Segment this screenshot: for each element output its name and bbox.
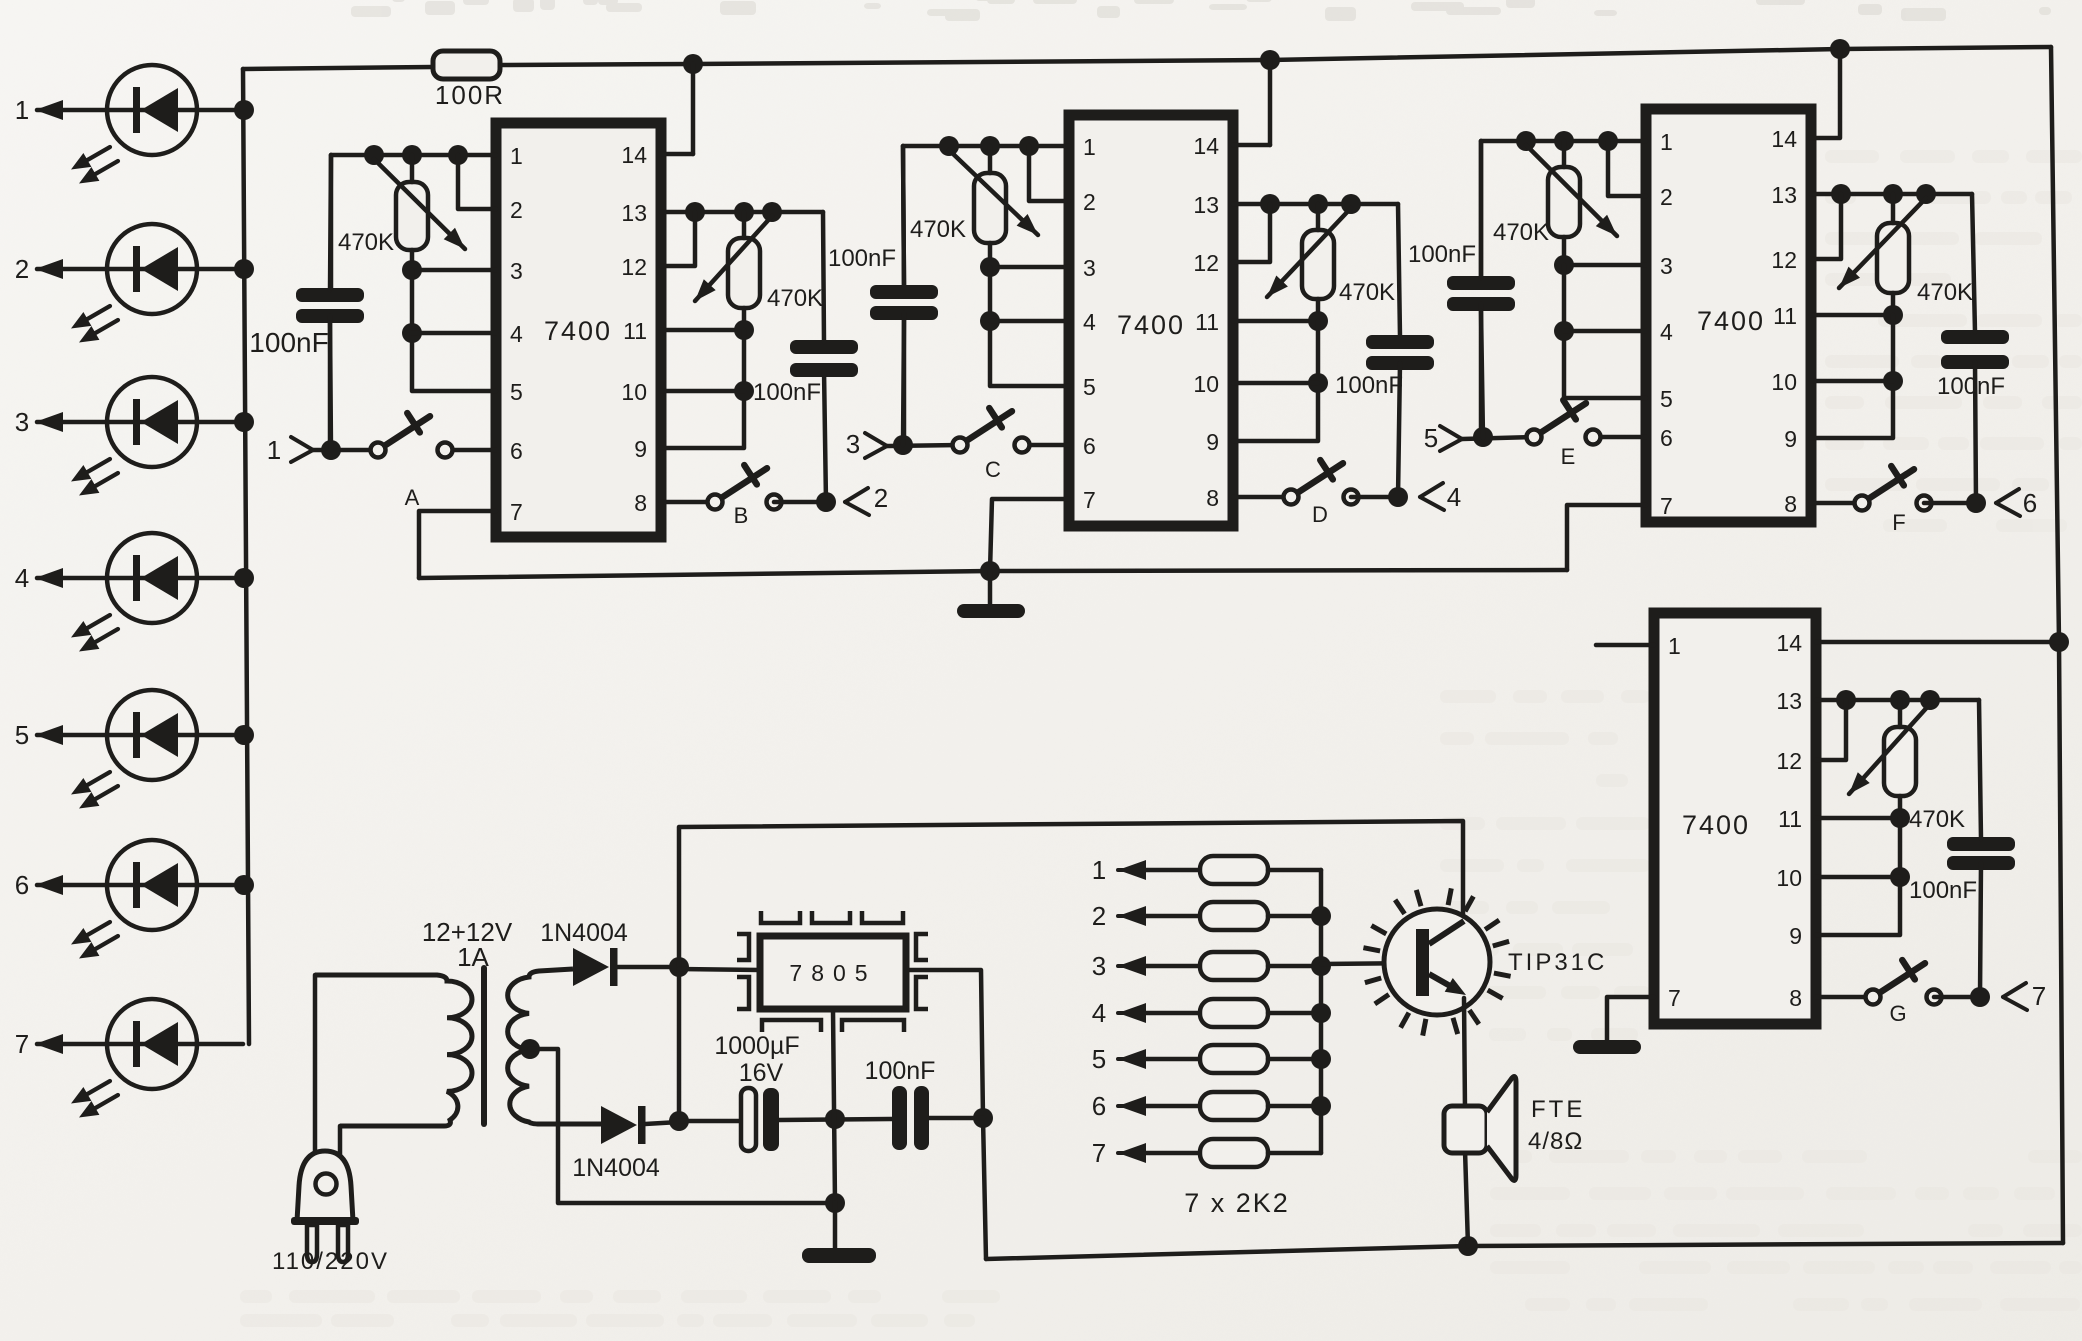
svg-text:14: 14 xyxy=(1193,133,1219,159)
wire: U4 pin11-10-9 tie xyxy=(1816,818,1900,935)
wire: U1 pin11 lead xyxy=(661,328,744,333)
junction D2 output xyxy=(669,1111,689,1131)
svg-text:11: 11 xyxy=(1195,309,1219,335)
wire: U3 cap left riser xyxy=(1479,141,1484,276)
ghost text bottom right xyxy=(1490,1150,2082,1311)
resistor 2K2 #1 xyxy=(1092,855,1321,885)
svg-text:7400: 7400 xyxy=(1682,810,1750,840)
svg-text:13: 13 xyxy=(1193,192,1219,218)
wire: U1 cap to input node xyxy=(330,323,331,450)
switch G (U4) xyxy=(1866,960,1942,1026)
wire: base drive xyxy=(1321,963,1416,964)
junction center tap xyxy=(520,1039,540,1059)
junctions on LED bus xyxy=(234,100,254,895)
svg-text:7400: 7400 xyxy=(1697,306,1765,336)
junction U1 pin10 xyxy=(734,381,754,401)
svg-text:7: 7 xyxy=(1660,493,1673,519)
junction U4 trimmer top/pin13 xyxy=(1890,690,1910,710)
wire: rectifier node riser xyxy=(677,967,682,1121)
junction U3 pin2 riser/pin1 xyxy=(1598,131,1618,151)
svg-text:100nF: 100nF xyxy=(828,245,896,272)
svg-text:6: 6 xyxy=(1660,425,1673,451)
junction 5V riser / 100nF xyxy=(973,1108,993,1128)
wire: U2 pin8 to switch xyxy=(1233,495,1291,500)
junction bottom rail / speaker line xyxy=(1458,1236,1478,1256)
junction U1 pin12 riser/pin13 xyxy=(685,202,705,222)
transformer core xyxy=(481,968,487,1124)
svg-text:7: 7 xyxy=(1092,1138,1106,1168)
svg-text:C: C xyxy=(985,457,1001,482)
svg-text:6: 6 xyxy=(1092,1091,1106,1121)
svg-text:G: G xyxy=(1889,1001,1906,1026)
junction U1 pin11 xyxy=(734,320,754,340)
junction U2 pin12 riser/pin13 xyxy=(1260,194,1280,214)
wire: U3 cap top lead xyxy=(1479,141,1484,278)
package marks around 7805 xyxy=(737,911,928,1032)
trimmer 470K at U1 output gate xyxy=(728,238,760,308)
svg-text:8: 8 xyxy=(1784,491,1797,517)
wire: U1 trimmer bottom lead xyxy=(410,250,415,270)
trimmer 470K at U4 output gate xyxy=(1884,727,1916,796)
wire: ground symbol riser U2 xyxy=(988,571,993,604)
wire: 7805 input xyxy=(679,969,760,970)
wire: U2 pin14 riser xyxy=(1268,60,1273,145)
wire: node to C1 xyxy=(679,1119,741,1124)
junction U3 pin11 xyxy=(1883,305,1903,325)
ghost text mid right xyxy=(1440,690,1650,1041)
input connector 1 xyxy=(291,437,313,450)
wire: U1 pin11-10-9 tie xyxy=(661,330,744,448)
svg-text:F: F xyxy=(1892,510,1905,535)
input connector 5 xyxy=(1440,426,1462,439)
svg-text:5: 5 xyxy=(1660,386,1673,412)
wire: bottom +5V rail xyxy=(986,1243,2063,1259)
svg-text:16V: 16V xyxy=(739,1059,784,1087)
svg-text:8: 8 xyxy=(634,490,647,516)
svg-text:2: 2 xyxy=(1660,184,1673,210)
svg-text:7: 7 xyxy=(1083,487,1096,513)
svg-text:1: 1 xyxy=(1668,633,1681,659)
svg-text:6: 6 xyxy=(1083,433,1096,459)
paper texture top band xyxy=(348,0,2051,21)
junction U4 pin11 xyxy=(1890,808,1910,828)
svg-text:10: 10 xyxy=(621,379,647,405)
wire: U2 output cap lower lead xyxy=(1398,363,1400,497)
wire: C1 to gnd node xyxy=(779,1119,892,1120)
svg-text:14: 14 xyxy=(621,142,647,168)
svg-text:470K: 470K xyxy=(910,216,966,243)
wire: U2 trimmer bottom lead xyxy=(988,243,993,267)
diode D1 1N4004 xyxy=(573,948,609,986)
wire: U2 pin3-4-5 tie xyxy=(990,267,1069,386)
wire: U1 pin12 riser xyxy=(661,212,695,266)
junction U2 trimmer top/pin1 xyxy=(980,136,1000,156)
wire: emitter to speaker xyxy=(1464,998,1465,1110)
wire: U1 pin14 riser xyxy=(691,64,696,154)
junction U1 wiper/pin1 xyxy=(364,145,384,165)
junction U3 pin3 xyxy=(1554,255,1574,275)
svg-text:12: 12 xyxy=(1776,748,1802,774)
wire: switch E to pin6 xyxy=(1593,435,1646,440)
resistor 2K2 #2 xyxy=(1092,901,1321,931)
svg-text:3: 3 xyxy=(15,407,29,437)
ground symbol (PSU) xyxy=(802,1248,876,1263)
svg-text:100nF: 100nF xyxy=(1335,372,1403,399)
svg-text:470K: 470K xyxy=(767,285,823,312)
wire: U3 pin3-4-5 tie xyxy=(1564,265,1646,398)
svg-text:7: 7 xyxy=(510,499,523,525)
svg-text:2: 2 xyxy=(15,254,29,284)
LED 7 xyxy=(15,999,243,1118)
junction C1/7805 gnd xyxy=(825,1109,845,1129)
junctions resistor bus xyxy=(1311,906,1331,1116)
svg-text:1: 1 xyxy=(15,95,29,125)
wire: U3 pin11-10-9 tie xyxy=(1811,315,1893,438)
wire: U1 cap left riser xyxy=(329,155,334,288)
svg-text:470K: 470K xyxy=(338,229,394,256)
wire: U4 pin7 to ground xyxy=(1607,997,1654,1040)
junction U3 wiper/pin13 xyxy=(1916,184,1936,204)
svg-text:4: 4 xyxy=(1083,309,1096,335)
svg-text:3: 3 xyxy=(1083,255,1096,281)
wire: switch B to output node xyxy=(774,500,826,505)
svg-text:6: 6 xyxy=(2023,488,2037,518)
junction rectifier output xyxy=(669,957,689,977)
junction U2 pin2 riser/pin1 xyxy=(1019,136,1039,156)
wire: U3 pin3 lead xyxy=(1564,263,1646,268)
wire: U1 pin1 tie bus xyxy=(331,153,496,158)
resistor 2K2 #6 xyxy=(1092,1091,1321,1121)
junction U4 pin10 xyxy=(1890,867,1910,887)
resistor 2K2 #5 xyxy=(1092,1044,1321,1074)
wire: U2 output cap riser xyxy=(1398,204,1400,337)
svg-text:11: 11 xyxy=(623,318,647,344)
wire: U3 trimmer bottom lead xyxy=(1562,237,1567,265)
svg-text:470K: 470K xyxy=(1909,806,1965,833)
speaker FTE xyxy=(1444,1106,1487,1153)
junction U3 pin4 xyxy=(1554,321,1574,341)
transistor Q1 TIP31C xyxy=(1384,909,1490,1015)
wire: U3 pin10 lead xyxy=(1811,379,1893,384)
svg-text:5: 5 xyxy=(1092,1044,1106,1074)
wire: U2 pin2 riser xyxy=(1029,146,1069,201)
pin numbers U1 xyxy=(510,142,647,525)
wire: U4 pin12 riser xyxy=(1816,700,1846,760)
plug prongs xyxy=(307,1225,317,1262)
svg-text:4: 4 xyxy=(1660,319,1673,345)
output connector 7 xyxy=(2003,983,2026,997)
transformer primary winding xyxy=(315,975,472,1126)
junction U3 output node xyxy=(1966,493,1986,513)
switch A (U1) xyxy=(371,413,453,510)
wiper arrow of U2 right trimmer xyxy=(1267,208,1351,297)
wire: U4 pin8 to switch xyxy=(1816,995,1873,1000)
wire: U3 pin2 riser xyxy=(1608,141,1646,196)
wire: U3 output cap riser xyxy=(1972,194,1975,332)
junction U2 wiper/pin13 xyxy=(1341,194,1361,214)
ghost text bottom left xyxy=(240,1290,1000,1327)
junction U3 trimmer top/pin13 xyxy=(1883,184,1903,204)
svg-text:2: 2 xyxy=(874,483,888,513)
svg-text:4: 4 xyxy=(15,563,29,593)
LED 4 xyxy=(15,533,243,652)
IC U3 7400 xyxy=(1646,109,1811,522)
svg-text:12: 12 xyxy=(1193,250,1219,276)
wire: U2 pin12 riser xyxy=(1233,204,1270,262)
svg-text:4: 4 xyxy=(510,321,523,347)
svg-text:4/8Ω: 4/8Ω xyxy=(1528,1128,1583,1155)
svg-text:12: 12 xyxy=(621,254,647,280)
svg-text:1: 1 xyxy=(1092,855,1106,885)
junction U4 wiper/pin13 xyxy=(1920,690,1940,710)
wire: U3 pin8 to switch xyxy=(1811,501,1862,506)
wire: U1 pin13 tie bus xyxy=(661,210,823,215)
wire: U4 output cap riser xyxy=(1979,700,1981,839)
junction U1 pin3 xyxy=(402,260,422,280)
svg-text:1000µF: 1000µF xyxy=(714,1032,799,1060)
svg-text:8: 8 xyxy=(1789,985,1802,1011)
wire: U1 right trimmer bottom lead xyxy=(742,308,747,330)
ground symbol (U2) xyxy=(957,604,1025,618)
wire: U1 right trimmer top lead xyxy=(742,212,747,238)
wire: U1 pin3-4-5 tie xyxy=(412,270,496,391)
wire: U3 pin13 tie bus xyxy=(1811,192,1972,197)
svg-text:10: 10 xyxy=(1193,371,1219,397)
wire: U2 cap to input node xyxy=(903,320,904,445)
wire: U1 pin14 lead xyxy=(661,152,693,157)
diode D2 1N4004 xyxy=(601,1106,637,1144)
capacitor 100nF (PSU) xyxy=(892,1086,907,1150)
wire: U2 cap bottom lead xyxy=(902,313,907,445)
IC U2 7400 xyxy=(1069,115,1233,526)
resistor 2K2 #3 xyxy=(1092,951,1321,981)
wire: U1 trimmer top lead xyxy=(410,155,415,182)
svg-text:13: 13 xyxy=(621,200,647,226)
svg-text:12: 12 xyxy=(1771,247,1797,273)
svg-text:6: 6 xyxy=(510,438,523,464)
svg-text:1N4004: 1N4004 xyxy=(572,1154,660,1182)
svg-text:2: 2 xyxy=(1092,901,1106,931)
svg-text:6: 6 xyxy=(15,870,29,900)
svg-text:11: 11 xyxy=(1773,303,1797,329)
junction U1 trimmer top/pin1 xyxy=(402,145,422,165)
wire: LED bus vertical xyxy=(243,69,249,1044)
IC U4 7400 xyxy=(1654,613,1816,1024)
svg-text:110/220V: 110/220V xyxy=(272,1248,389,1275)
wire: U2 pin14 lead xyxy=(1233,143,1270,148)
svg-text:13: 13 xyxy=(1771,182,1797,208)
svg-text:14: 14 xyxy=(1771,126,1797,152)
svg-text:8: 8 xyxy=(1206,485,1219,511)
junction U3 cap/input xyxy=(1473,427,1493,447)
capacitor 100nF at U4 output xyxy=(1947,837,2015,851)
wire: U3 output cap lower lead xyxy=(1975,362,1976,503)
wiper arrow of U2 left trimmer xyxy=(949,150,1038,235)
wire: U4 pin11 lead xyxy=(1816,816,1900,821)
trimmer 470K at U1 input xyxy=(396,182,428,250)
wire: input to switch A xyxy=(313,448,378,453)
junction U2 pin3 xyxy=(980,257,1000,277)
svg-text:1: 1 xyxy=(1083,134,1096,160)
svg-text:7400: 7400 xyxy=(1117,310,1185,340)
svg-text:1N4004: 1N4004 xyxy=(540,919,628,947)
svg-text:D: D xyxy=(1312,502,1328,527)
output connector 2 xyxy=(845,488,868,502)
wire: plug left lead xyxy=(313,975,318,1151)
junction U2 pin4 xyxy=(980,311,1000,331)
wire: U4 pin14 lead xyxy=(1816,640,2059,645)
wiper arrow of U3 left trimmer xyxy=(1526,145,1617,236)
svg-text:3: 3 xyxy=(510,258,523,284)
junction U2 trimmer top/pin13 xyxy=(1308,194,1328,214)
wire: U1 cap bottom lead xyxy=(328,316,333,450)
wire: ground rail xyxy=(419,570,1567,578)
svg-text:3: 3 xyxy=(846,429,860,459)
junction U1 output node xyxy=(816,492,836,512)
LED 3 xyxy=(15,377,243,496)
svg-text:7: 7 xyxy=(1668,985,1681,1011)
wire: switch D to output node xyxy=(1351,495,1398,500)
svg-text:4: 4 xyxy=(1447,482,1461,512)
wire: U1 pin2 riser xyxy=(458,155,496,209)
svg-text:5: 5 xyxy=(1083,374,1096,400)
junction U1 cap/input xyxy=(321,440,341,460)
svg-text:B: B xyxy=(734,503,749,528)
junction U3 pin12 riser/pin13 xyxy=(1831,184,1851,204)
junction U1 pin2 riser/pin1 xyxy=(448,145,468,165)
svg-text:14: 14 xyxy=(1776,630,1802,656)
svg-text:1: 1 xyxy=(510,143,523,169)
svg-text:TIP31C: TIP31C xyxy=(1508,949,1607,976)
svg-text:A: A xyxy=(405,485,420,510)
wiper arrow of U1 right trimmer xyxy=(695,216,772,301)
svg-text:1: 1 xyxy=(1660,129,1673,155)
wire: U3 pin14 lead+riser xyxy=(1811,49,1840,138)
wire: top rail left of R xyxy=(243,67,433,69)
transformer secondary winding xyxy=(508,969,601,1124)
svg-text:2: 2 xyxy=(510,197,523,223)
wire: U1 pin10 lead xyxy=(661,389,744,394)
wire: U3 right trimmer bottom lead xyxy=(1891,293,1896,315)
svg-text:9: 9 xyxy=(1784,426,1797,452)
svg-text:470K: 470K xyxy=(1339,279,1395,306)
wire: U4 right trimmer top lead xyxy=(1898,700,1903,727)
wire: U4 pin1 stub xyxy=(1596,643,1654,648)
junction U1 wiper/pin13 xyxy=(762,202,782,222)
trimmer 470K at U3 output gate xyxy=(1877,223,1909,293)
junction U4 output node xyxy=(1970,987,1990,1007)
switch E (U3) xyxy=(1527,400,1601,469)
junction U2 wiper/pin1 xyxy=(939,136,959,156)
wire: plug right lead xyxy=(338,1126,343,1158)
junction U2 output node xyxy=(1388,487,1408,507)
heatsink marks around Q1 xyxy=(1363,888,1510,1035)
switch B (U1) xyxy=(708,465,782,528)
wire: U2 cap left riser xyxy=(903,146,904,285)
capacitor 100nF at U2 output xyxy=(1366,335,1434,349)
wire: D1 cathode to node xyxy=(617,965,679,970)
junction U3 wiper/pin1 xyxy=(1516,131,1536,151)
pin numbers U3 xyxy=(1660,126,1797,519)
wire: switch C to pin6 xyxy=(1022,443,1069,448)
svg-text:13: 13 xyxy=(1776,688,1802,714)
svg-text:10: 10 xyxy=(1771,369,1797,395)
trimmer 470K at U3 input xyxy=(1548,167,1580,237)
wire: U2 pin3 lead xyxy=(990,265,1069,270)
junction top rail / IC1 pin14 xyxy=(683,54,703,74)
emitter arrow Q1 xyxy=(1445,978,1466,995)
wire: U3 cap to input node xyxy=(1481,311,1483,438)
trimmer 470K at U2 input xyxy=(974,173,1006,243)
svg-text:1: 1 xyxy=(267,435,281,465)
junction ground rail / U2 pin7 xyxy=(980,561,1000,581)
output connector 4 xyxy=(1420,483,1443,497)
wiper arrow of U1 left trimmer xyxy=(374,159,465,249)
switch D (U2) xyxy=(1284,460,1359,527)
svg-text:7: 7 xyxy=(15,1029,29,1059)
svg-text:100nF: 100nF xyxy=(1408,241,1476,268)
IC U1 7400 xyxy=(496,123,661,537)
wire: U3 pin4 lead xyxy=(1564,329,1646,334)
wire: switch A to pin6 xyxy=(445,448,496,453)
svg-text:9: 9 xyxy=(1789,923,1802,949)
capacitor 100nF at U3 input xyxy=(1447,276,1515,290)
capacitor 100nF at U2 input xyxy=(870,285,938,299)
svg-text:100nF: 100nF xyxy=(1909,877,1977,904)
wire: U4 right trimmer bottom lead xyxy=(1898,796,1903,818)
junction U2 pin10 xyxy=(1308,373,1328,393)
junction top rail / IC3 pin14 xyxy=(1830,39,1850,59)
wire: U3 pin7 to ground xyxy=(1567,505,1646,570)
wire: U2 cap top lead xyxy=(903,146,904,287)
svg-text:10: 10 xyxy=(1776,865,1802,891)
LED 5 xyxy=(15,690,243,809)
svg-text:470K: 470K xyxy=(1917,279,1973,306)
switch F (U3) xyxy=(1855,466,1932,535)
svg-text:100nF: 100nF xyxy=(249,327,328,358)
svg-text:FTE: FTE xyxy=(1531,1096,1585,1123)
input connector 3 xyxy=(865,433,887,446)
svg-text:2: 2 xyxy=(1083,189,1096,215)
output connector 6 xyxy=(1996,489,2019,503)
wire: U2 pin7 to ground xyxy=(990,499,1069,571)
svg-text:9: 9 xyxy=(634,436,647,462)
wire: U1 output cap riser xyxy=(823,212,824,342)
svg-text:7400: 7400 xyxy=(544,316,612,346)
wire: resistor network bus xyxy=(1319,870,1324,1153)
wire: right edge +5V xyxy=(2051,47,2063,1243)
wire: top +5V rail xyxy=(500,47,2051,65)
wire: D2 cathode to node xyxy=(645,1122,679,1124)
resistor 100R xyxy=(433,51,500,79)
wire: U4 output cap lower lead xyxy=(1980,863,1981,997)
junction U2 cap/input xyxy=(893,435,913,455)
wire: U2 pin4 lead xyxy=(990,319,1069,324)
capacitor 100nF at U1 output xyxy=(790,340,858,354)
wire: input to switch E xyxy=(1462,437,1534,439)
ghost text right margin xyxy=(1825,150,2082,532)
wire: C2 to 5V riser xyxy=(929,1116,983,1121)
wire: unregulated rail xyxy=(679,821,1463,967)
wire: 7805 gnd to ground symbol xyxy=(833,1203,838,1248)
wiper arrow of U4 right trimmer xyxy=(1849,704,1930,794)
svg-text:100nF: 100nF xyxy=(865,1057,936,1085)
wiper arrow of U3 right trimmer xyxy=(1839,198,1926,288)
wire: U3 pin12 riser xyxy=(1811,194,1841,259)
switch C (U2) xyxy=(953,408,1030,482)
wire: U3 cap bottom lead xyxy=(1479,304,1484,437)
wire: U3 right trimmer top lead xyxy=(1891,194,1896,223)
